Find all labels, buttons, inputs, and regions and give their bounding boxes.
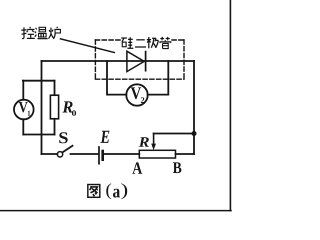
label pointer line (控温炉 to box) xyxy=(61,39,115,53)
frame right border xyxy=(229,0,231,211)
caption paren right xyxy=(121,183,127,199)
caption letter a xyxy=(113,189,120,198)
char 硅 xyxy=(121,37,133,48)
wire: bottom left to switch xyxy=(42,153,58,155)
text 硅二极管 (hand-drawn CJK) xyxy=(121,37,171,49)
char 温 xyxy=(35,27,48,38)
char 图 xyxy=(88,185,100,198)
text 控温炉 (hand-drawn CJK) xyxy=(21,27,60,39)
voltmeter V1 circle xyxy=(14,100,34,120)
resistor R0 body xyxy=(50,95,58,119)
wire: switch to battery xyxy=(71,153,99,155)
label V of V1 xyxy=(19,102,28,112)
switch S blade xyxy=(63,146,73,153)
rheostat wiper arrow xyxy=(151,134,156,151)
wire: V2 left lead xyxy=(107,61,126,95)
subscript 0 of R0 xyxy=(72,110,76,115)
char 极 xyxy=(147,37,159,48)
caption 图 (a) xyxy=(88,185,100,198)
wire: battery to rheostat xyxy=(104,153,140,155)
frame bottom border xyxy=(0,210,231,212)
switch S contact circle xyxy=(57,152,62,157)
wire: right vertical xyxy=(193,61,195,154)
label R of R0 xyxy=(62,101,72,112)
wire: V1/R0 bottom bar xyxy=(23,134,54,136)
char 二 xyxy=(135,40,146,47)
dashed furnace box xyxy=(95,40,184,79)
wire: wiper horizontal xyxy=(154,133,194,135)
label S xyxy=(59,132,67,143)
char 管 xyxy=(160,37,171,49)
char 控 xyxy=(21,27,35,39)
diode D cathode bar xyxy=(145,52,147,71)
subscript 1 of V1 xyxy=(28,111,30,116)
junction node dot xyxy=(192,131,197,136)
caption paren left xyxy=(106,183,111,199)
wire: V1/R0 top bar xyxy=(23,80,55,82)
wire: left vertical xyxy=(41,61,43,154)
voltmeter V2 circle xyxy=(126,84,147,105)
label E xyxy=(100,131,109,143)
wire: main top (through diode) xyxy=(42,60,195,62)
wire: V1 upper lead xyxy=(22,81,24,100)
wire: V2 right lead xyxy=(148,61,169,95)
battery E long plate xyxy=(98,147,100,164)
label A xyxy=(132,162,142,173)
subscript 2 of V2 xyxy=(141,97,144,103)
wire: R0 upper lead xyxy=(54,81,56,96)
char 炉 xyxy=(49,27,61,39)
wire: rheostat to right corner xyxy=(176,153,195,155)
label R of rheostat xyxy=(139,137,149,147)
battery E short plate xyxy=(101,151,104,160)
wire: V1 lower lead xyxy=(22,119,24,134)
rheostat R body xyxy=(139,150,175,158)
label B xyxy=(173,162,182,173)
diode D triangle xyxy=(127,51,144,71)
label V of V2 xyxy=(131,87,141,99)
wire: R0 lower lead xyxy=(54,119,56,135)
